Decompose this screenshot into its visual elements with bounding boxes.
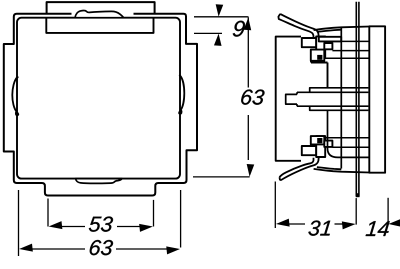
bottom reference line (y=177.5) [193,176,250,178]
63 vertical top arrow (pointing up) [244,17,252,30]
left arc top dot [16,76,18,78]
top spring arm [278,14,318,37]
bottom bump (spring) [76,179,122,184]
middle bar: nub [286,94,297,104]
63 extension lines [18,190,20,256]
9 upper arrow (pointing down) [215,4,223,17]
dimension label 31 = "31" [308,221,330,236]
middle bar: outer rect [310,88,369,111]
dimension label 9 = "9" [233,21,245,37]
63 left arrow [19,244,33,253]
inner top rect (insert plate) [46,18,153,33]
top tab [47,2,155,14]
wall plate (double line) [356,2,359,197]
63 vertical bottom arrow (pointing down) [246,164,254,177]
14 dimension [387,198,389,222]
right 63 vertical dimension line [247,18,249,88]
rear plate line [340,27,342,168]
right arc top dot [179,74,181,76]
right edge arc (claw spring) [179,75,184,113]
lines to cover plate (bottom) [324,137,369,139]
top claw block [302,36,341,62]
top arm sheet to cover plate [314,27,370,32]
bottom spring arm [280,158,319,181]
left edge arc (claw spring) [12,77,18,115]
support-ring frame outline (front view) [4,14,197,196]
63 right arrow [166,245,180,254]
31 right arrow (tip at 356) [342,220,356,229]
9 reference lines [194,17,248,18]
dimension label 14 = "14" [366,221,390,236]
body right edge curve into lower ledge line [328,110,370,157]
wall plate bottom cap [356,193,360,197]
bottom arm sheet to cover plate [314,167,370,172]
right cover plate [369,26,385,172]
14 right arrow (outside, tip at 388 pointing left) [388,219,400,228]
9 lower arrow (pointing up) [214,33,222,46]
63 dimension line [31,248,85,250]
inner rounded square [17,18,180,179]
31 dimension [274,182,276,229]
53 dimension line [60,226,85,228]
dimension label 63v = "63" [241,90,264,105]
53 extension lines [47,199,49,227]
dimension label 53 = "53" [89,217,113,232]
body right edge [327,63,329,88]
53 right arrow [139,223,153,232]
31 left arrow [275,219,289,228]
53 left arrow [48,221,62,230]
insert body [276,37,301,161]
lines to cover plate (top) [341,40,369,42]
bottom claw block [302,136,333,157]
dimension label 63b = "63" [90,240,113,255]
top bump (spring) [75,11,124,18]
middle bar: long middle rect [297,92,368,106]
